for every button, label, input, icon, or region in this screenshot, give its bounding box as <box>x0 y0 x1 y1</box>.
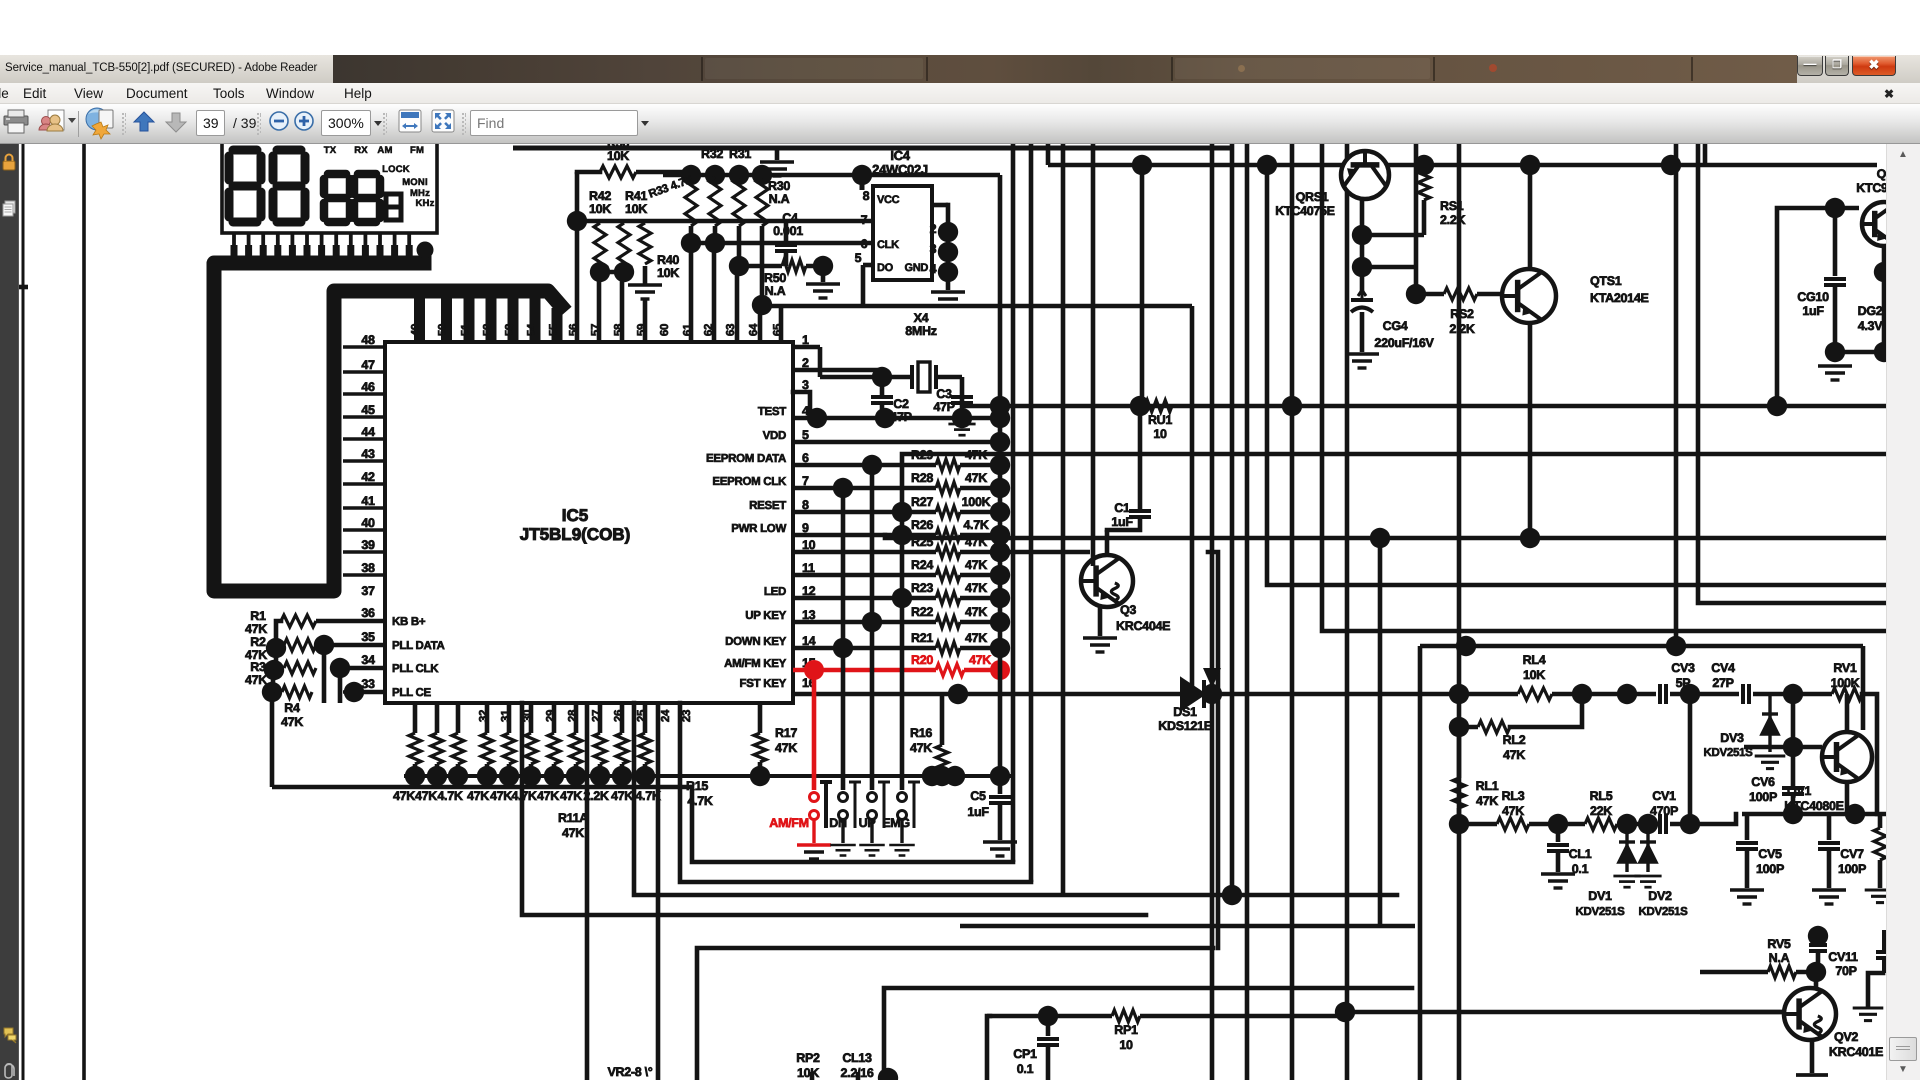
capacitor CG11 (clipped) <box>1876 930 1892 973</box>
resistor R42 <box>594 223 606 270</box>
svg-text:0.1: 0.1 <box>1017 1062 1034 1076</box>
wire UP gnd lead <box>870 820 873 843</box>
wire pin row R21 <box>793 646 936 651</box>
wire x1777 riser <box>1777 208 1835 406</box>
svg-text:100K: 100K <box>1831 676 1860 690</box>
resistor R32 <box>709 177 721 226</box>
svg-text:R11A: R11A <box>558 811 588 825</box>
junction R42 bottom <box>590 262 610 282</box>
svg-text:60: 60 <box>659 324 671 336</box>
svg-text:47K: 47K <box>393 789 415 803</box>
display connector pins <box>234 233 409 257</box>
capacitor C4 bottom lead <box>784 253 789 266</box>
wire CP1 lead <box>1046 1016 1051 1036</box>
transistor QV2 KRC401E <box>1784 988 1836 1040</box>
svg-text:27P: 27P <box>1712 676 1733 690</box>
arrow onto DS1 node <box>1203 668 1221 688</box>
capacitor CV1 <box>1660 814 1666 834</box>
junction DV1 top <box>1617 814 1637 834</box>
svg-text:R24: R24 <box>911 558 933 572</box>
capacitor CV7 <box>1818 843 1840 849</box>
svg-text:10K: 10K <box>625 202 647 216</box>
svg-text:RL3: RL3 <box>1502 789 1525 803</box>
svg-text:38: 38 <box>361 561 375 575</box>
svg-text:IC4: IC4 <box>890 148 910 163</box>
svg-text:KB B+: KB B+ <box>392 616 426 628</box>
junction R23 column <box>990 588 1010 608</box>
diode DV2 KDV251S <box>1640 824 1656 872</box>
wire R32 bottom <box>713 226 718 243</box>
svg-text:37: 37 <box>361 584 375 598</box>
resistor RL1 <box>1453 778 1465 808</box>
capacitor CG4 (polarized) <box>1351 290 1373 312</box>
resistor R33 <box>685 177 697 226</box>
wire gnd stub top <box>775 148 780 160</box>
junction pin4 column <box>990 408 1010 428</box>
svg-text:47K: 47K <box>245 673 267 687</box>
svg-text:DV2: DV2 <box>1648 889 1672 903</box>
junction R31 bottom <box>729 256 749 276</box>
svg-text:34: 34 <box>361 653 375 667</box>
wire vertical x1380 <box>1378 536 1383 926</box>
wire R15 bottom lead <box>643 764 648 776</box>
junction EMG row8 <box>892 502 912 522</box>
wire CV6 bottom <box>1791 796 1796 814</box>
junction pin56/R42 rail <box>567 211 587 231</box>
svg-text:47K: 47K <box>965 631 987 645</box>
wire C1 top <box>1138 406 1143 509</box>
resistor R3 <box>284 662 316 674</box>
junction RU1/C1 <box>1130 396 1150 416</box>
svg-text:48: 48 <box>361 333 375 347</box>
resistor R11 <box>548 733 560 764</box>
junction R33 top <box>681 165 701 185</box>
junction y694 x1582 <box>1572 684 1592 704</box>
svg-text:DV1: DV1 <box>1588 889 1612 903</box>
wire loop D <box>522 703 1146 915</box>
wire rail y538 <box>885 535 1886 538</box>
junction Q3 base row <box>990 542 1010 562</box>
junction CG10 bottom <box>1825 342 1845 362</box>
wire CLK rail <box>691 241 873 246</box>
svg-text:0.1: 0.1 <box>1572 862 1589 876</box>
svg-text:8MHz: 8MHz <box>905 324 937 338</box>
wire vertical x1347 <box>1345 144 1350 1080</box>
svg-text:RP1: RP1 <box>1114 1023 1138 1037</box>
wire C2 bottom <box>880 405 885 417</box>
svg-text:QTS1: QTS1 <box>1590 274 1622 288</box>
svg-text:PLL DATA: PLL DATA <box>392 640 445 652</box>
svg-text:KHz: KHz <box>415 198 434 209</box>
resistor R4 <box>282 686 312 698</box>
svg-text:7: 7 <box>861 213 868 227</box>
svg-text:R17: R17 <box>775 726 797 740</box>
resistor R13 <box>594 733 606 764</box>
junction bus R16 <box>932 766 952 786</box>
svg-text:KTA2014E: KTA2014E <box>1590 291 1649 305</box>
wire RV2 bottom <box>1878 860 1883 888</box>
wire R21 to column <box>960 646 1000 651</box>
wire vertical x1192 (DS1 feed) <box>1190 306 1195 694</box>
wire R36 left <box>577 170 600 175</box>
wire DN column <box>841 488 846 790</box>
LCD display module DISP1 <box>222 137 437 233</box>
junction EMG row9 <box>892 525 912 545</box>
svg-text:41: 41 <box>361 494 375 508</box>
capacitor C4 <box>775 245 797 251</box>
junction pin4 b <box>875 408 895 428</box>
junction rail x1671 <box>1661 155 1681 175</box>
wire R6 top lead <box>435 703 440 733</box>
svg-text:C1: C1 <box>1114 501 1130 515</box>
svg-text:46: 46 <box>361 380 375 394</box>
wire vertical x1013 <box>1011 144 1016 775</box>
transistor QRS1 KTC4075E <box>1341 151 1389 199</box>
wire crystal right down <box>960 377 965 417</box>
IC IC4 body <box>873 186 932 280</box>
wire right ground feed <box>1868 973 1883 1006</box>
svg-text:AM/FM KEY: AM/FM KEY <box>724 658 786 670</box>
svg-text:10K: 10K <box>589 202 611 216</box>
ground under EMG <box>889 845 915 856</box>
ground AM/FM red bar <box>797 843 831 846</box>
svg-text:JT5BL9(COB): JT5BL9(COB) <box>520 525 631 544</box>
junction R8 bus <box>477 766 497 786</box>
svg-text:CV11: CV11 <box>1828 950 1858 964</box>
junction rail/QTS1 <box>1520 155 1540 175</box>
junction IC4 pin2 <box>938 222 958 242</box>
svg-text:CV3: CV3 <box>1671 661 1695 675</box>
wire QRS1 to RS2 row <box>1362 265 1416 270</box>
resistor R14 <box>616 733 628 764</box>
wire pin2 row <box>793 368 882 373</box>
svg-text:47K: 47K <box>611 789 633 803</box>
ground under UP <box>859 845 885 856</box>
resistor R16 <box>936 745 948 775</box>
junction R31 top <box>729 165 749 185</box>
wire Q3 collector <box>1105 530 1110 555</box>
svg-text:47K: 47K <box>965 605 987 619</box>
svg-text:R50: R50 <box>764 271 786 285</box>
resistor R40 <box>639 223 651 264</box>
svg-text:CG10: CG10 <box>1797 290 1829 304</box>
svg-text:VCC: VCC <box>877 194 900 206</box>
svg-text:R31: R31 <box>729 147 751 161</box>
wire rail y824 b <box>1529 822 1585 827</box>
wire vertical x1676 <box>1674 144 1679 648</box>
svg-text:RU1: RU1 <box>1148 413 1172 427</box>
junction R4 left <box>262 682 282 702</box>
junction rail y538 x1380 <box>1370 528 1390 548</box>
svg-text:RESET: RESET <box>749 500 786 512</box>
junction R28 column <box>990 478 1010 498</box>
svg-text:2.2K: 2.2K <box>1449 322 1475 336</box>
resistor R27 <box>936 506 960 518</box>
svg-text:R42: R42 <box>589 189 611 203</box>
wire vertical x1322 bend <box>1322 144 1886 631</box>
svg-text:KRC401E: KRC401E <box>1829 1045 1883 1059</box>
wire R42-R41 bottoms <box>600 270 624 275</box>
junction rail x1142 <box>1132 155 1152 175</box>
svg-text:R28: R28 <box>911 471 933 485</box>
wire R36 right <box>636 170 691 175</box>
wire QV1 collector <box>1845 694 1850 732</box>
ground under CL1 <box>1541 874 1575 888</box>
svg-text:CV7: CV7 <box>1840 847 1864 861</box>
wire emitter to RS1 bottom <box>1362 233 1424 238</box>
wire pin row R25 <box>793 550 936 555</box>
wire rail y824 c <box>1617 822 1656 827</box>
small 7-segment digits <box>324 174 380 222</box>
junction R33 bottom <box>681 233 701 253</box>
wire R15 top lead <box>643 703 648 733</box>
junction R11 bus <box>544 766 564 786</box>
svg-text:AM: AM <box>377 145 392 156</box>
wire R17 top <box>758 703 763 733</box>
wire rail y694 <box>1212 692 1518 697</box>
wire pin64 riser <box>758 306 763 342</box>
junction UP row6 <box>862 455 882 475</box>
wire 4.7K rail <box>663 173 862 178</box>
wire Q3 collector bend <box>1107 519 1140 530</box>
transistor QG (clipped) <box>1862 202 1906 246</box>
wire Q3 base row <box>1000 550 1090 555</box>
wire R4 to pin33 <box>354 690 385 695</box>
svg-text:C2: C2 <box>893 397 909 411</box>
svg-text:R21: R21 <box>911 631 933 645</box>
junction RL1 bottom <box>1449 814 1469 834</box>
wire vertical x1247 <box>1245 144 1250 1080</box>
wire crystal left <box>820 375 912 380</box>
wire C5 top lead <box>998 776 1003 794</box>
svg-text:47K: 47K <box>965 558 987 572</box>
wire R28 to column <box>960 486 1000 491</box>
resistor R15 <box>639 733 651 764</box>
svg-text:100P: 100P <box>1749 790 1777 804</box>
junction QG emitter <box>1874 262 1894 282</box>
wire rail y1016 <box>987 1014 1112 1019</box>
svg-text:220uF/16V: 220uF/16V <box>1374 336 1434 350</box>
IC5 pin 36 stub <box>343 619 385 623</box>
wire R50 gnd lead <box>821 266 826 282</box>
resistor R1 <box>281 615 316 627</box>
wire box F2 <box>884 988 1412 1080</box>
wire y646 right drop <box>1861 646 1866 730</box>
wire RL1 bottom <box>1457 808 1462 824</box>
wire rail y454 <box>902 454 1886 512</box>
junction UP row13 <box>862 612 882 632</box>
wire R-column to loop <box>272 785 692 790</box>
svg-text:N.A: N.A <box>769 192 790 206</box>
svg-text:VR2-8 \°: VR2-8 \° <box>608 1065 653 1079</box>
resistor R20 (red) <box>936 664 964 676</box>
svg-text:RL4: RL4 <box>1523 653 1546 667</box>
wire from R2 junction down <box>322 645 327 703</box>
7-segment digit 2 <box>273 150 305 222</box>
switch DN <box>839 782 862 828</box>
resistor RL5 <box>1585 818 1617 830</box>
svg-text:47K: 47K <box>969 653 991 667</box>
svg-text:0.001: 0.001 <box>773 224 803 238</box>
wire RL2 left <box>1459 725 1478 730</box>
wire IC4 gnd lead <box>946 272 951 290</box>
ground under CG4 <box>1345 354 1379 368</box>
svg-text:—: — <box>581 144 594 155</box>
junction R7 bus <box>448 766 468 786</box>
resistor RS2 <box>1444 288 1477 300</box>
wire R6 bottom lead <box>435 764 440 776</box>
wire R31 bottom <box>737 226 742 266</box>
wire vertical x1267 bend <box>1267 165 1886 585</box>
svg-text:R23: R23 <box>911 581 933 595</box>
resistor RU1 <box>1145 400 1172 412</box>
wire QG emitter <box>1882 246 1887 272</box>
wire R1 to pin36 <box>316 619 385 624</box>
wire CG10 bottom lead <box>1833 287 1838 352</box>
svg-text:6: 6 <box>861 237 868 251</box>
svg-text:10K: 10K <box>797 1066 819 1080</box>
wire vertical x1093 (Q3 base riser) <box>1091 144 1096 566</box>
svg-text:DG2: DG2 <box>1858 304 1883 318</box>
svg-text:QG: QG <box>1877 167 1886 181</box>
junction R14 bus <box>612 766 632 786</box>
wire R42 rail <box>577 219 873 224</box>
svg-text:X4: X4 <box>914 311 929 325</box>
wire loop C <box>634 703 1397 895</box>
svg-text:DO: DO <box>877 262 894 274</box>
wire CG10 to QG <box>1835 206 1859 211</box>
svg-text:54: 54 <box>526 323 538 336</box>
wire R7 bottom lead <box>456 764 461 776</box>
svg-text:RL2: RL2 <box>1503 733 1526 747</box>
wire pin row R26 <box>793 533 936 538</box>
svg-text:43: 43 <box>361 447 375 461</box>
wire R50 right <box>806 264 823 269</box>
wire R3-R4 column <box>272 670 274 692</box>
junction CP1 <box>1038 1006 1058 1026</box>
wire vertical x1705 <box>1703 144 1708 165</box>
wire box E <box>697 948 1213 1080</box>
wire vertical x1698 bend <box>1698 144 1886 603</box>
wire R33 bottom <box>689 226 694 243</box>
IC IC5 body <box>385 342 793 703</box>
junction RU1 x1292 <box>1282 396 1302 416</box>
junction RU1 right rail <box>1767 396 1787 416</box>
svg-text:KDS121E: KDS121E <box>1158 719 1212 733</box>
junction y1012 x1345 <box>1335 1002 1355 1022</box>
resistor R2 <box>284 639 316 651</box>
wire R11 bottom lead <box>552 764 557 776</box>
wire QV2 base rail right <box>1700 1010 1784 1015</box>
capacitor C3 <box>951 397 973 403</box>
capacitor CV6 <box>1782 788 1804 794</box>
resistor R29 <box>936 459 960 471</box>
junction y694 x1459 <box>1449 684 1469 704</box>
IC5 top thick pin stubs <box>420 296 558 341</box>
junction y646 x1466 <box>1456 636 1476 656</box>
svg-text:70P: 70P <box>1835 964 1856 978</box>
wire RP2 stub <box>810 1072 815 1080</box>
wire rail y646 <box>1420 644 1863 649</box>
svg-text:EEPROM DATA: EEPROM DATA <box>706 453 786 465</box>
wire rail y824 d <box>1670 822 1690 827</box>
capacitor C2 <box>871 397 893 403</box>
switch AM/FM (red) <box>810 793 819 820</box>
wire CL13 stub <box>856 1072 861 1080</box>
svg-text:47K: 47K <box>490 789 512 803</box>
junction R50 right <box>813 256 833 276</box>
diode DV3 KDV251S <box>1762 694 1778 752</box>
wire vertical x1420 <box>1418 646 1423 1080</box>
junction IC4 VCC <box>852 165 872 185</box>
wire rail y824 a <box>1459 822 1497 827</box>
wire loop A <box>692 787 1013 862</box>
wire RP1 right <box>1140 1014 1345 1019</box>
wire pin3 bend <box>793 392 810 417</box>
wire CV7 lead <box>1827 814 1832 840</box>
svg-text:UP: UP <box>859 816 876 830</box>
junction RL2 left <box>1449 717 1469 737</box>
junction rail/RS1 <box>1414 155 1434 175</box>
wire DO riser <box>861 265 866 306</box>
svg-text:45: 45 <box>361 403 375 417</box>
wire R5 bottom lead <box>413 764 418 776</box>
junction R30 top <box>752 165 772 185</box>
resistor R24 <box>936 569 960 581</box>
capacitor CV4 <box>1743 684 1749 704</box>
svg-text:5: 5 <box>855 251 862 265</box>
junction R32 top <box>705 165 725 185</box>
wire vertical x658 <box>656 703 661 1080</box>
junction bus x932 <box>922 766 942 786</box>
svg-text:QV2: QV2 <box>1834 1030 1858 1044</box>
wire AM/FM red drop <box>812 670 817 790</box>
svg-text:CL13: CL13 <box>842 1051 872 1065</box>
capacitor C1 <box>1129 511 1151 517</box>
wire DO stub <box>863 263 873 268</box>
wire R24 to column <box>960 573 1000 578</box>
wire bottom resistor bus <box>404 774 1013 778</box>
wire left edge stub <box>19 285 28 290</box>
svg-text:N.A: N.A <box>765 284 786 298</box>
svg-text:53: 53 <box>504 324 516 336</box>
wire QV1 base row <box>1744 745 1822 750</box>
wire R-column down <box>270 692 275 787</box>
wire pin1 to crystal <box>793 345 820 350</box>
junction R24 column <box>990 565 1010 585</box>
wire pin57 riser <box>597 272 602 342</box>
resistor R17 <box>754 733 766 762</box>
wire pin15 red row <box>793 668 936 673</box>
wire pin56 riser <box>575 172 580 342</box>
svg-text:PLL CE: PLL CE <box>392 687 432 699</box>
capacitor CP1 <box>1037 1039 1059 1045</box>
wire vertical x587 <box>585 703 590 1080</box>
junction R2 right <box>314 635 334 655</box>
svg-text:FM: FM <box>410 145 424 156</box>
wire CG10 lead <box>1833 208 1838 276</box>
wire QTS1 collector <box>1528 165 1533 270</box>
svg-text:40: 40 <box>361 516 375 530</box>
wire rail y694 c <box>1670 692 1739 697</box>
svg-text:KDV251S: KDV251S <box>1638 906 1688 918</box>
ground under Q3 <box>1083 638 1117 652</box>
svg-text:PWR LOW: PWR LOW <box>731 523 786 535</box>
capacitor CV11 bottom lead <box>1816 953 1821 972</box>
svg-text:47K: 47K <box>560 789 582 803</box>
wire CG4 bottom <box>1360 312 1365 352</box>
IC5 pin 33 stub <box>343 690 385 694</box>
